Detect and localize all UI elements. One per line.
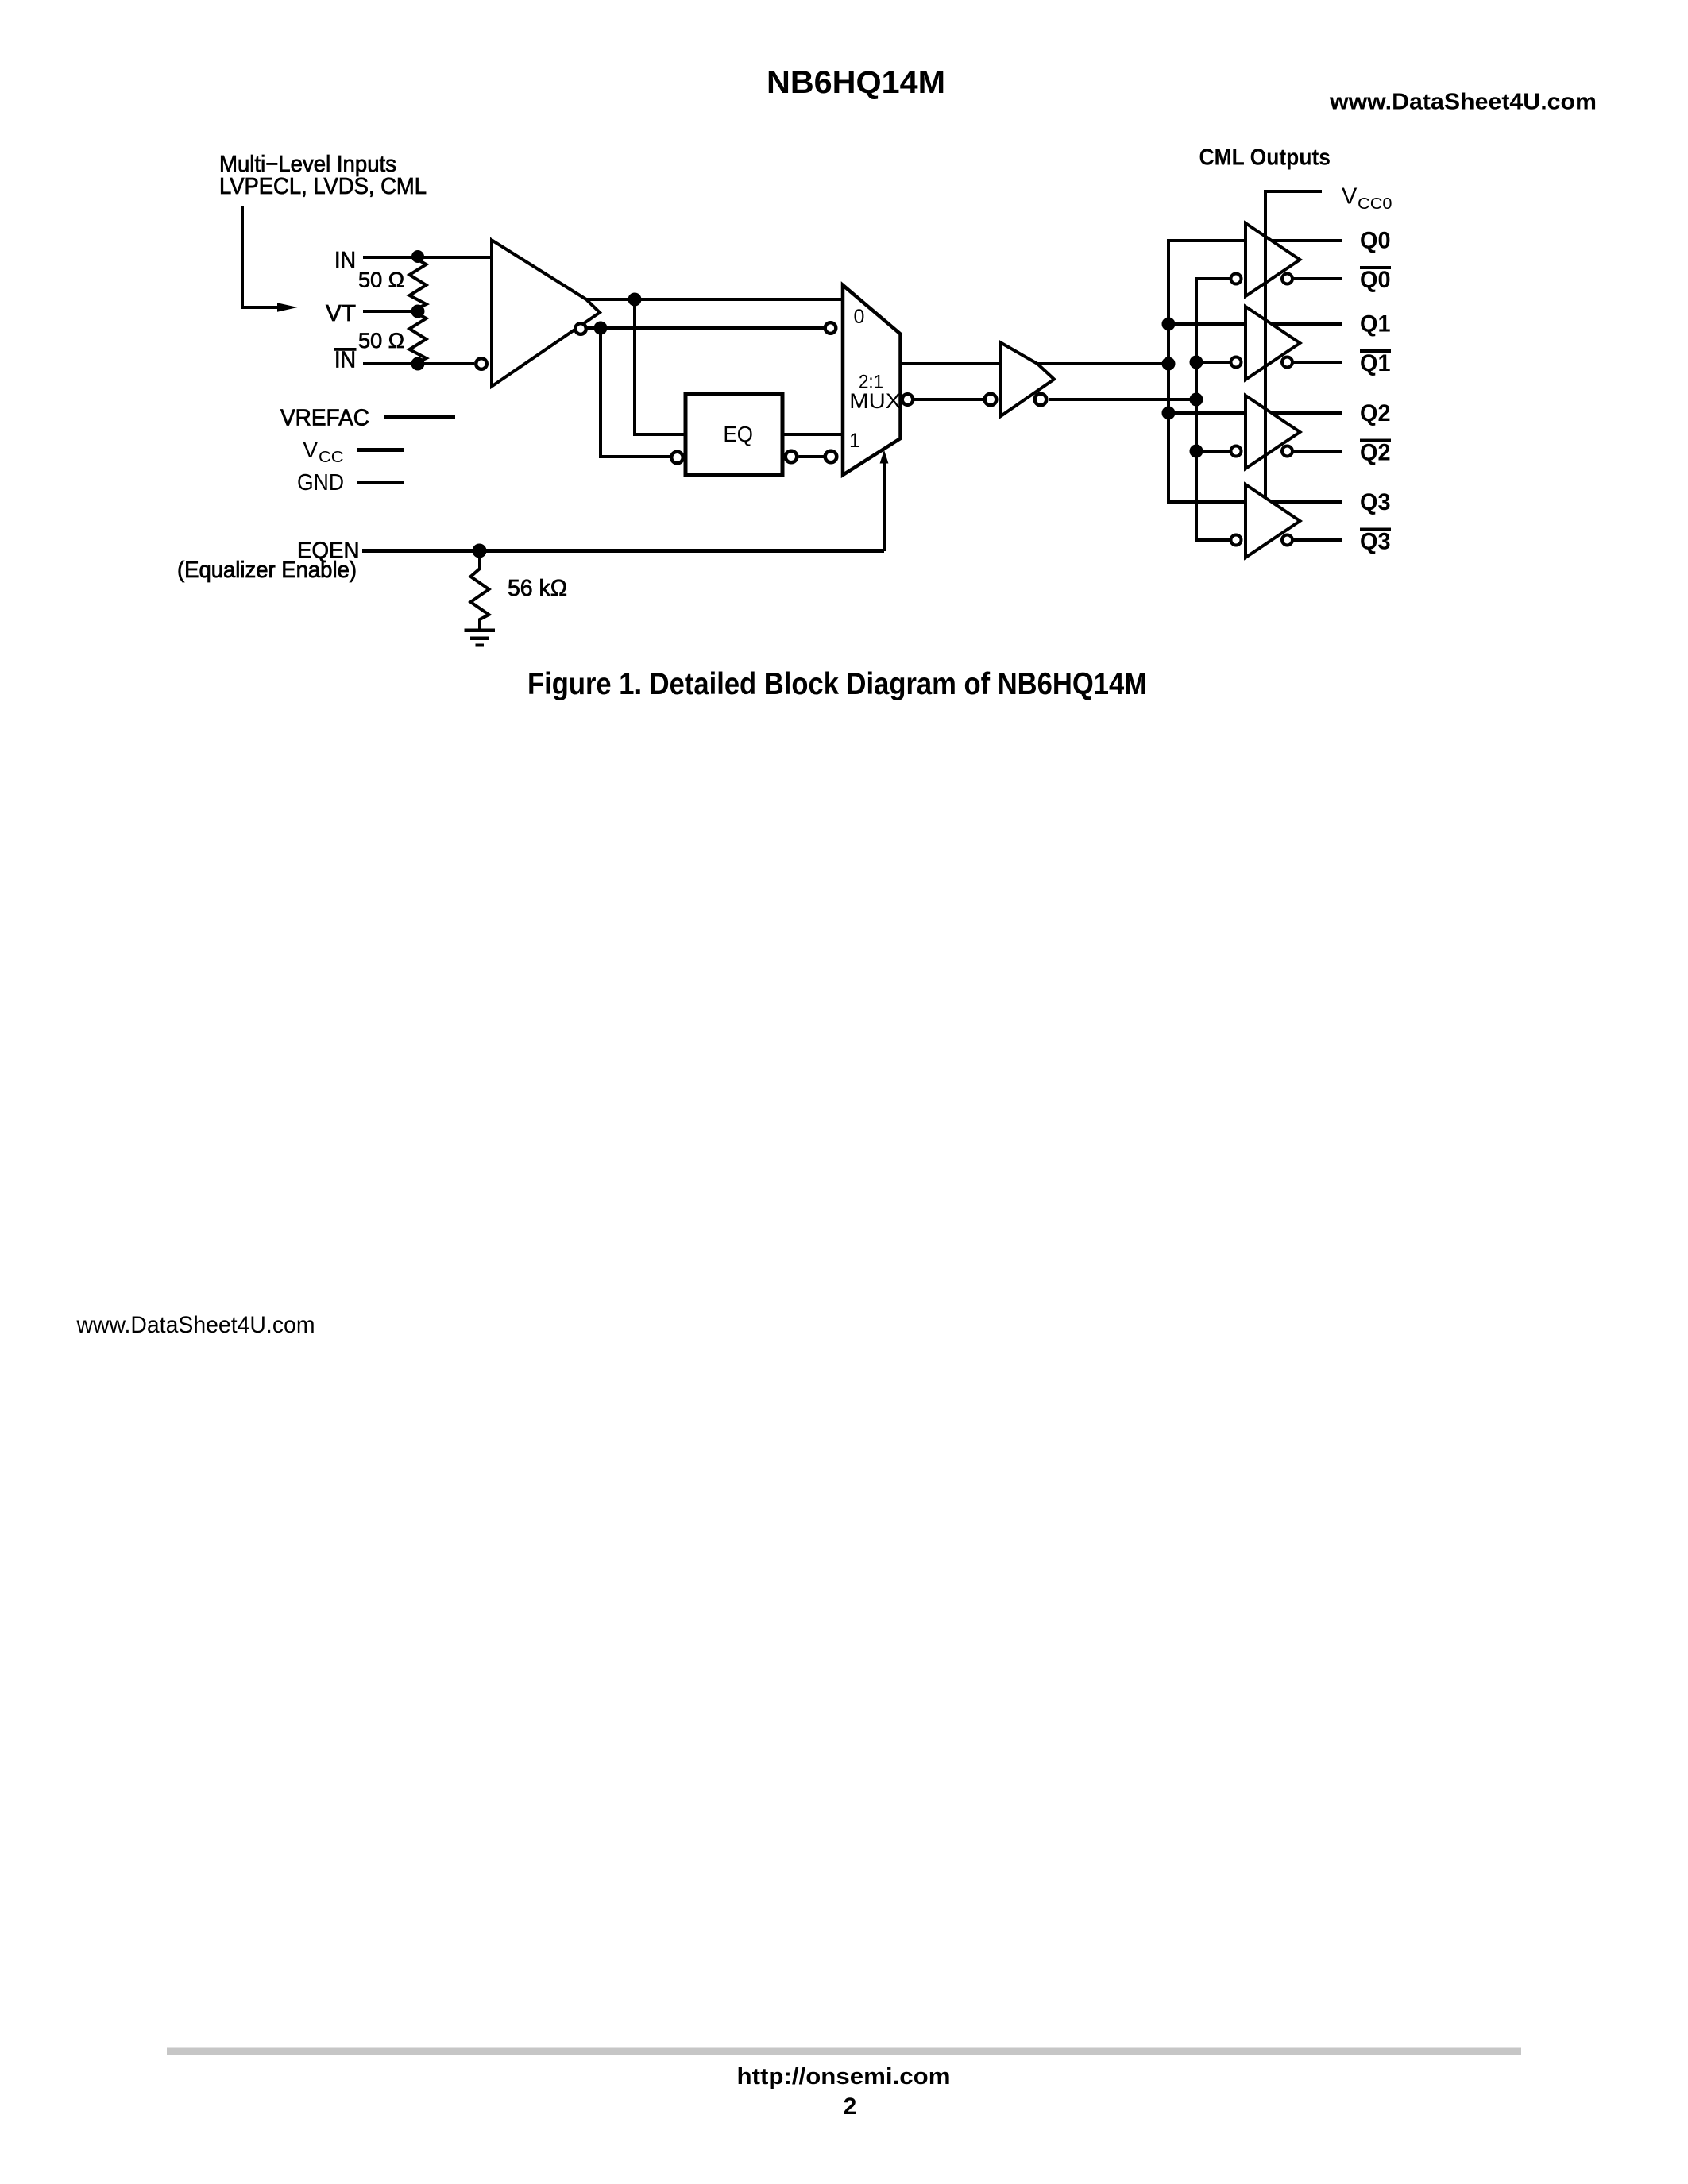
node VREFAC label <box>280 406 369 431</box>
svg-text:Q0: Q0 <box>1360 267 1391 293</box>
caption Figure 1 <box>527 667 1147 701</box>
node INbar label <box>334 348 357 373</box>
junction dot bus B / Q1 <box>1190 356 1203 369</box>
value label 56 kohm <box>508 576 567 601</box>
footer rule <box>167 2048 1521 2055</box>
svg-text:CML Outputs: CML Outputs <box>1199 145 1331 171</box>
inversion bubble on INbar input <box>476 358 487 369</box>
label Multi-Level Inputs <box>219 152 427 199</box>
junction dot bus B / Q2 <box>1190 445 1203 458</box>
output buffer Q0 <box>1231 223 1300 296</box>
stub wire VREFAC <box>384 415 455 419</box>
bubble at MUX input 1 <box>825 451 837 463</box>
svg-text:(Equalizer Enable): (Equalizer Enable) <box>177 558 357 583</box>
wire EQ inverted output <box>799 455 825 458</box>
title NB6HQ14M <box>767 65 945 100</box>
wire true tap down to EQ <box>635 299 685 434</box>
wire U1 true output to MUX input <box>586 298 843 301</box>
wire Q1 output <box>1272 322 1342 326</box>
power label VCC0 <box>1342 184 1393 214</box>
wire bus A to Q2 buffer <box>1168 411 1246 415</box>
svg-text:Q3: Q3 <box>1360 529 1391 555</box>
bus A vertical (true) <box>1167 241 1170 502</box>
output buffer Q1 <box>1231 307 1300 380</box>
svg-text:V: V <box>303 438 319 463</box>
svg-text:VT: VT <box>326 301 356 326</box>
svg-text:50 Ω: 50 Ω <box>358 268 404 292</box>
label (Equalizer Enable) <box>177 558 357 583</box>
watermark www.DataSheet4U.com left <box>76 1312 315 1338</box>
bubble MUX inverted output <box>902 394 914 405</box>
svg-text:CC0: CC0 <box>1358 195 1393 213</box>
wire Q3bar output <box>1293 538 1342 542</box>
wire bus A to Q0 buffer <box>1167 239 1246 242</box>
wire U1 inverted output <box>587 326 824 330</box>
wire bus A to Q1 buffer <box>1168 322 1246 326</box>
label Q1bar <box>1360 349 1391 376</box>
node VT label <box>326 301 356 326</box>
svg-text:CC: CC <box>319 449 344 466</box>
resistor R2 50 ohm <box>410 311 427 364</box>
output buffer Q2 <box>1231 396 1300 469</box>
label Q0bar <box>1360 266 1391 293</box>
label Q0 <box>1360 228 1391 254</box>
power VCC0 feed line <box>1265 191 1322 497</box>
svg-text:Q0: Q0 <box>1360 228 1391 254</box>
wire Q0bar output <box>1293 277 1342 280</box>
svg-text:2: 2 <box>844 2093 857 2120</box>
bubble at U3 inverted input <box>985 394 997 406</box>
label Q2bar <box>1360 439 1391 466</box>
value label 50 ohm (top) <box>358 268 404 292</box>
wire U3 true output to bus A <box>1037 362 1168 365</box>
wire Q2bar output <box>1293 450 1342 453</box>
svg-text:http://onsemi.com: http://onsemi.com <box>737 2064 951 2089</box>
node VCC label <box>303 438 344 466</box>
svg-text:VREFAC: VREFAC <box>280 406 369 431</box>
svg-text:MUX: MUX <box>849 389 901 413</box>
wire bus B to Q2 bubble <box>1196 450 1230 453</box>
svg-text:56 kΩ: 56 kΩ <box>508 576 567 601</box>
label Q3bar <box>1360 528 1391 555</box>
junction dot bus A / Q1 <box>1162 318 1176 331</box>
watermark www.DataSheet4U.com top right <box>1329 90 1597 115</box>
wire inverted tap down to EQ <box>601 328 670 457</box>
wire Q3 output <box>1272 500 1342 504</box>
wire bus A to Q3 buffer <box>1167 500 1246 504</box>
label Q1 <box>1360 311 1391 338</box>
svg-text:1: 1 <box>849 430 860 452</box>
svg-text:Q1: Q1 <box>1360 311 1391 338</box>
junction dot bus B inverted <box>1190 393 1203 407</box>
svg-text:Q2: Q2 <box>1360 440 1391 466</box>
EQ block <box>686 394 782 476</box>
svg-text:IN: IN <box>334 248 356 273</box>
wire MUX inverted output to buffer U3 <box>914 398 983 401</box>
junction dot bus A true <box>1162 357 1176 371</box>
page number 2 <box>844 2093 857 2120</box>
footer url http://onsemi.com <box>737 2064 951 2089</box>
wire IN <box>363 256 492 259</box>
svg-text:Q3: Q3 <box>1360 489 1391 515</box>
wire INbar <box>363 362 474 365</box>
wire VT <box>363 310 418 313</box>
arrow from Multi-Level Inputs label <box>242 206 298 312</box>
output buffer Q3 <box>1231 484 1300 558</box>
junction dot true output <box>628 293 642 307</box>
bus B vertical (inverted) <box>1195 279 1198 540</box>
wire EQ true output to MUX <box>782 433 843 436</box>
wire Q1bar output <box>1293 361 1342 364</box>
junction dot EQEN <box>473 544 487 558</box>
resistor R3 56 kohm <box>471 550 489 629</box>
bubble at MUX input 0 <box>825 322 836 334</box>
label Q2 <box>1360 400 1391 426</box>
wire U3 inverted output to bus B <box>1049 398 1196 401</box>
svg-text:www.DataSheet4U.com: www.DataSheet4U.com <box>76 1312 315 1338</box>
svg-text:NB6HQ14M: NB6HQ14M <box>767 65 945 100</box>
svg-text:EQ: EQ <box>724 422 754 446</box>
ground <box>465 629 496 647</box>
wire MUX select <box>883 461 886 551</box>
svg-text:50 Ω: 50 Ω <box>358 329 404 353</box>
wire MUX true output to buffer U3 <box>900 362 1000 365</box>
svg-text:Q2: Q2 <box>1360 400 1391 426</box>
wire bus B to Q0 bubble <box>1195 277 1230 280</box>
input buffer U1 (differential) <box>492 240 600 386</box>
node IN label <box>334 248 356 273</box>
junction dot INbar/R2 <box>411 357 425 371</box>
buffer U3 (differential) <box>1000 342 1054 417</box>
mux U2 2:1 MUX <box>843 285 901 475</box>
svg-text:IN: IN <box>334 348 356 373</box>
bubble at EQ lower input <box>671 452 683 464</box>
svg-text:Q1: Q1 <box>1360 350 1391 376</box>
wire Q0 output <box>1272 239 1342 242</box>
svg-text:V: V <box>1342 184 1358 210</box>
label CML Outputs <box>1199 145 1331 171</box>
wire EQEN <box>362 549 884 553</box>
svg-text:GND: GND <box>297 470 344 496</box>
svg-text:LVPECL, LVDS, CML: LVPECL, LVDS, CML <box>219 174 427 199</box>
stub wire GND <box>357 481 404 484</box>
value label 50 ohm (bottom) <box>358 329 404 353</box>
junction dot VT <box>411 305 425 318</box>
resistor R1 50 ohm <box>410 257 427 311</box>
wire Q2 output <box>1272 411 1342 415</box>
junction dot IN/R1 <box>411 250 424 263</box>
junction dot bus A / Q2 <box>1162 407 1176 420</box>
svg-text:www.DataSheet4U.com: www.DataSheet4U.com <box>1329 90 1597 115</box>
svg-text:0: 0 <box>854 306 865 328</box>
arrowhead MUX select <box>880 450 889 464</box>
bubble EQ inverted output <box>786 451 798 463</box>
stub wire VCC <box>357 448 404 452</box>
svg-text:Figure 1. Detailed Block Diagr: Figure 1. Detailed Block Diagram of NB6H… <box>527 667 1147 701</box>
node EQEN label <box>297 538 360 564</box>
junction dot inverted output <box>594 322 608 335</box>
wire bus B to Q1 bubble <box>1196 361 1230 364</box>
node GND label <box>297 470 344 496</box>
wire bus B to Q3 bubble <box>1195 538 1230 542</box>
label Q3 <box>1360 489 1391 515</box>
